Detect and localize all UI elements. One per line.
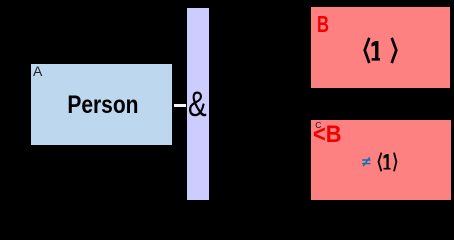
operator not-equal (blue, drawn as SVG): [361, 155, 372, 168]
node C: constraint box C: [311, 120, 451, 200]
node B: constraint box B: [311, 7, 450, 88]
value <1> in box B (angle brackets drawn as SVG): [363, 36, 399, 66]
label B (box B tag): [317, 13, 329, 36]
value label Person: [44, 92, 162, 118]
label C (box C tag): [315, 121, 321, 130]
AND constraint bar: [187, 8, 209, 200]
wire: connector dash from Person box to AND bar: [174, 104, 186, 107]
value <1> in box C (regular weight, angle brackets drawn as SVG): [377, 151, 399, 173]
label A (box A tag): [33, 64, 42, 78]
& operator label: [188, 87, 207, 122]
node A: Person entity box: [31, 64, 172, 145]
label <B (subtype reference, red): [313, 123, 342, 147]
